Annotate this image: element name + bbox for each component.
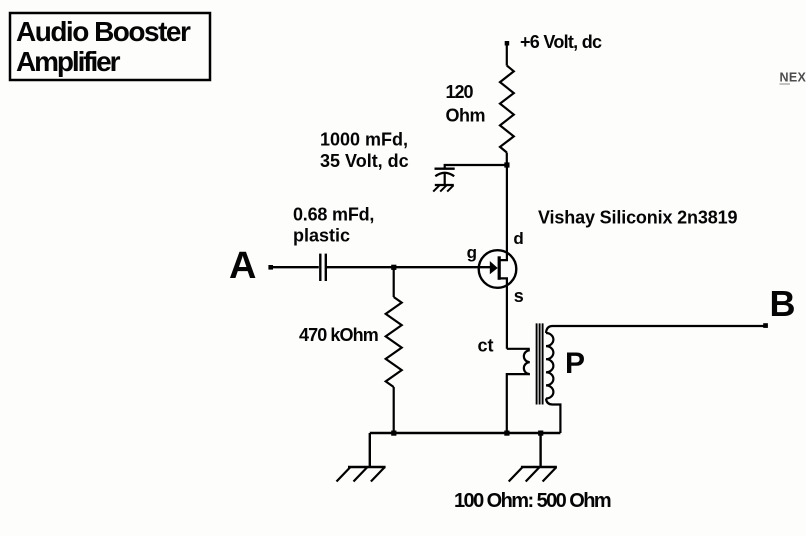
label g (467, 243, 477, 262)
transformer T1 primary lower winding (524, 350, 530, 374)
wire ground rail (370, 432, 561, 434)
label Vishay Siliconix 2n3819 (538, 208, 737, 228)
svg-text:1000 mFd,: 1000 mFd, (320, 130, 408, 150)
wire R2 to rail (393, 387, 395, 433)
ground under C1 (433, 185, 454, 192)
label s (514, 286, 524, 306)
node junction gate/R2 (391, 265, 396, 270)
svg-text:NEXT: NEXT (780, 71, 806, 85)
svg-text:ct: ct (478, 336, 494, 356)
wire C2 to gate (327, 266, 491, 268)
transistor Q1 2n3819 (479, 165, 517, 349)
node +6V terminal dot (505, 41, 510, 46)
label d (513, 229, 523, 248)
svg-text:120: 120 (446, 82, 474, 102)
label 100 Ohm: 500 Ohm (454, 490, 611, 512)
title box (10, 13, 210, 80)
node A (229, 245, 273, 287)
node junction R2/rail (391, 431, 396, 436)
wire secondary bottom to rail (546, 399, 560, 434)
node junction gnd/rail (538, 431, 543, 436)
ground left (337, 467, 386, 482)
label 1000 mFd, 35 Volt, dc (320, 130, 409, 172)
label 120 Ohm (446, 82, 486, 126)
svg-text:B: B (770, 283, 796, 324)
svg-text:100 Ohm: 500 Ohm: 100 Ohm: 500 Ohm (454, 490, 611, 512)
wire rail to left ground (369, 433, 371, 467)
svg-text:Audio Booster: Audio Booster (16, 16, 191, 47)
svg-text:Amplifier: Amplifier (16, 46, 121, 77)
capacitor C2 0.68 mFd (320, 254, 326, 281)
NEXT link (780, 71, 806, 85)
transformer T1 secondary winding (546, 333, 553, 399)
node junction R1/C1/drain (504, 162, 509, 167)
label 470 kOhm (299, 325, 378, 345)
svg-text:plastic: plastic (293, 226, 350, 246)
wire R1 to junction (506, 153, 508, 166)
resistor R1 120 Ohm (500, 66, 514, 153)
label +6 Volt, dc (520, 32, 602, 52)
svg-text:s: s (514, 286, 524, 306)
svg-text:470 kOhm: 470 kOhm (299, 325, 378, 345)
wire junction to R2 (393, 267, 395, 297)
resistor R2 470 kOhm (386, 297, 402, 387)
svg-text:+6 Volt, dc: +6 Volt, dc (520, 32, 602, 52)
svg-text:A: A (229, 245, 256, 287)
svg-text:d: d (513, 229, 523, 248)
svg-text:P: P (565, 347, 585, 380)
svg-text:35 Volt, dc: 35 Volt, dc (320, 151, 409, 171)
svg-text:Vishay Siliconix 2n3819: Vishay Siliconix 2n3819 (538, 208, 737, 228)
wire secondary top to node B (546, 326, 765, 333)
label ct (478, 336, 494, 356)
svg-text:g: g (467, 243, 477, 262)
node B (763, 283, 795, 328)
svg-text:0.68 mFd,: 0.68 mFd, (293, 205, 374, 225)
wire center tap return to rail (507, 374, 530, 433)
wire from +6V to R1 (506, 44, 508, 66)
ground right (509, 467, 557, 482)
node junction ct/rail (504, 431, 509, 436)
transformer T1 core (537, 323, 543, 404)
capacitor C1 1000 mFd (435, 169, 455, 185)
wire junction to C1 (445, 165, 507, 168)
svg-text:Ohm: Ohm (446, 106, 486, 126)
wire source to transformer center tap (507, 348, 530, 350)
label 0.68 mFd, plastic (293, 205, 374, 246)
wire rail to right ground (539, 433, 541, 467)
wire A to C2 (271, 266, 319, 268)
label P (565, 347, 585, 380)
